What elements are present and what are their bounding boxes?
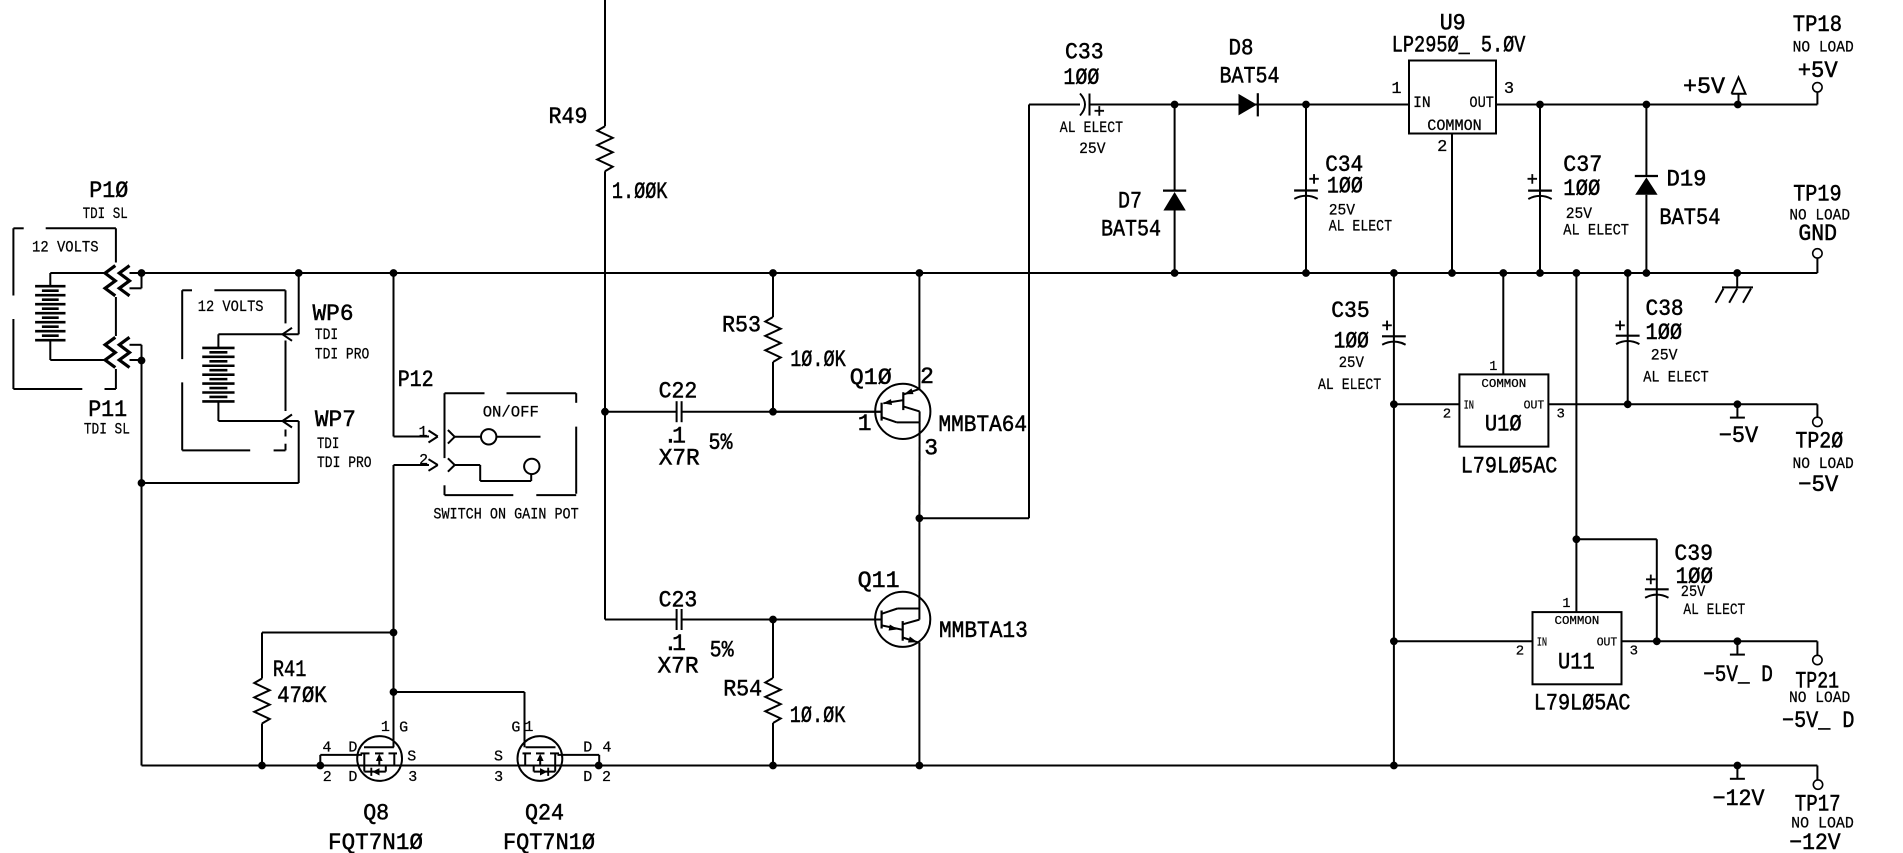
node C38 at GND bus <box>1624 270 1631 277</box>
svg-text:LP295Ø_ 5.ØV: LP295Ø_ 5.ØV <box>1392 33 1526 59</box>
node C38 at -5V row <box>1624 401 1631 408</box>
node P10 to GND bus <box>138 270 145 277</box>
node R54 at -12V rail <box>770 762 777 769</box>
svg-text:3: 3 <box>1630 644 1638 660</box>
capacitor C33 (polarized, horizontal) <box>1080 94 1090 116</box>
power tick -5V_D <box>1730 641 1745 654</box>
svg-text:1ØØ: 1ØØ <box>1327 174 1363 200</box>
svg-text:3: 3 <box>924 435 938 461</box>
svg-text:TDI: TDI <box>315 326 338 344</box>
node ground symbol at bus <box>1734 270 1741 277</box>
wire U11 COMMON column from GND bus <box>1575 273 1577 612</box>
connector P10/P11 body bracket <box>13 228 116 389</box>
svg-text:ON/OFF: ON/OFF <box>483 403 539 421</box>
svg-text:3: 3 <box>1504 80 1514 99</box>
node -5V tick at row <box>1734 401 1741 408</box>
switch contact 2 <box>448 458 540 481</box>
svg-text:R49: R49 <box>549 104 588 130</box>
svg-text:COMMON: COMMON <box>1555 615 1600 628</box>
wire +12V/C33 input net (top horizontal) <box>1029 104 1409 106</box>
svg-text:R53: R53 <box>722 313 761 339</box>
wire U11 OUT row (-5V_D net) <box>1622 641 1818 655</box>
svg-text:MMBTA13: MMBTA13 <box>939 618 1028 644</box>
power symbol +5V (triangle) <box>1732 77 1746 104</box>
node C34 at top wire <box>1303 101 1310 108</box>
pin WP6 arrow contact <box>283 273 299 341</box>
node WP6 to GND bus <box>295 270 302 277</box>
svg-text:−12V: −12V <box>1789 830 1840 853</box>
node Q8 drain stub at rail <box>317 762 324 769</box>
svg-text:2: 2 <box>920 364 934 390</box>
pin P12-2 arrow <box>429 459 438 471</box>
resistor R49 <box>597 0 612 620</box>
wire GND bus <box>142 258 1818 273</box>
capacitor C35 (polarized) <box>1382 336 1406 344</box>
svg-text:D: D <box>583 769 592 786</box>
battery 12 VOLTS (P10/P11) <box>35 273 105 360</box>
node P11 junction <box>138 357 145 364</box>
battery 12 VOLTS (WP6/WP7) <box>202 334 282 421</box>
svg-text:−5V: −5V <box>1719 423 1759 449</box>
wire P12 pin 2 net down to Q8/Q24 gates <box>394 465 430 747</box>
node C34 at GND bus <box>1303 270 1310 277</box>
svg-text:2: 2 <box>1516 644 1524 660</box>
svg-text:R41: R41 <box>273 657 307 683</box>
svg-text:COMMON: COMMON <box>1481 378 1526 391</box>
svg-text:OUT: OUT <box>1524 398 1545 412</box>
diode D19 BAT54 <box>1635 105 1658 274</box>
svg-text:AL ELECT: AL ELECT <box>1060 119 1123 137</box>
svg-text:47ØK: 47ØK <box>277 683 327 709</box>
svg-text:−5V_ D: −5V_ D <box>1782 708 1854 734</box>
svg-text:2: 2 <box>602 769 611 786</box>
svg-text:X7R: X7R <box>658 654 699 680</box>
svg-text:2: 2 <box>1443 407 1451 423</box>
wire C23 row <box>605 619 882 621</box>
node P12 pin1 at bus <box>390 270 397 277</box>
svg-text:G: G <box>511 720 520 737</box>
svg-text:Q11: Q11 <box>858 568 900 594</box>
svg-text:3: 3 <box>1556 407 1564 423</box>
node U10 pin1 at GND bus <box>1500 270 1507 277</box>
node C35 column at U11 IN row <box>1391 638 1398 645</box>
svg-text:IN: IN <box>1537 635 1547 649</box>
svg-text:TDI PRO: TDI PRO <box>317 454 372 472</box>
svg-text:25V: 25V <box>1079 140 1106 158</box>
switch P12 body (dashed box) <box>445 393 577 495</box>
diode D8 BAT54 <box>1239 93 1258 116</box>
svg-text:BAT54: BAT54 <box>1101 217 1161 243</box>
wire P12 pin 1 from GND bus <box>394 273 430 437</box>
node U9 pin2 at GND bus <box>1449 270 1456 277</box>
svg-text:AL ELECT: AL ELECT <box>1683 601 1745 619</box>
node +5V symbol at rail <box>1734 101 1741 108</box>
transistor Q24 (FQT7N10 MOSFET, mirrored) <box>518 736 600 781</box>
svg-text:TP18: TP18 <box>1793 12 1842 38</box>
svg-text:1ØØ: 1ØØ <box>1334 328 1369 354</box>
capacitor C39 (polarized) <box>1645 589 1669 597</box>
node C37 at +5V rail <box>1537 101 1544 108</box>
node collector junction Q10/Q11 <box>916 515 923 522</box>
svg-text:AL ELECT: AL ELECT <box>1329 217 1392 235</box>
svg-text:−5V: −5V <box>1798 472 1838 498</box>
svg-text:NO LOAD: NO LOAD <box>1793 455 1854 473</box>
testpoint TP18 terminal <box>1813 83 1822 92</box>
node D19 at +5V rail <box>1643 101 1650 108</box>
svg-text:1ØØ: 1ØØ <box>1063 65 1099 91</box>
value .1 (C22) <box>663 424 685 450</box>
testpoint TP17 terminal <box>1813 780 1822 789</box>
svg-text:4: 4 <box>602 740 611 757</box>
svg-text:1: 1 <box>1489 360 1497 375</box>
capacitor C38 (polarized) <box>1616 273 1640 404</box>
resistor R53 <box>765 273 780 412</box>
svg-text:+5V: +5V <box>1683 74 1725 100</box>
pin WP7 arrow contact <box>142 415 299 484</box>
svg-text:S: S <box>407 748 416 765</box>
svg-text:BAT54: BAT54 <box>1220 64 1280 90</box>
node C35 column at -12V rail <box>1391 762 1398 769</box>
svg-text:U11: U11 <box>1558 650 1595 676</box>
node gate net at R41 branch <box>390 629 397 636</box>
node WP7 wire to P11 vertical <box>138 480 145 487</box>
svg-text:12 VOLTS: 12 VOLTS <box>32 239 99 257</box>
svg-text:P12: P12 <box>398 367 434 393</box>
switch contact 1 (ON/OFF) <box>448 429 541 444</box>
testpoint TP20 terminal <box>1813 417 1822 426</box>
node C39 at U11 OUT row <box>1653 638 1660 645</box>
svg-text:R54: R54 <box>723 677 762 703</box>
regulator U11 L79L05AC box <box>1533 612 1622 684</box>
svg-text:25V: 25V <box>1681 583 1706 601</box>
svg-text:1: 1 <box>1391 80 1401 99</box>
capacitor C22 <box>677 401 682 422</box>
resistor R41 <box>254 633 269 766</box>
svg-text:GND: GND <box>1798 221 1837 247</box>
capacitor C37 (polarized) <box>1528 105 1552 274</box>
svg-text:C22: C22 <box>659 379 698 405</box>
svg-text:OUT: OUT <box>1469 94 1494 112</box>
svg-text:1: 1 <box>1562 597 1570 612</box>
svg-text:Q24: Q24 <box>525 801 564 827</box>
svg-text:25V: 25V <box>1339 354 1365 372</box>
svg-text:2: 2 <box>419 452 428 469</box>
node gate net at Q24 branch <box>390 689 397 696</box>
node U11 column at GND bus <box>1573 270 1580 277</box>
svg-text:OUT: OUT <box>1597 635 1618 649</box>
regulator U9 LP2950 box <box>1409 61 1496 134</box>
svg-text:D: D <box>348 769 357 786</box>
node Q10 collector at GND bus <box>916 270 923 277</box>
svg-text:−5V_ D: −5V_ D <box>1703 662 1773 688</box>
svg-text:1ØØ: 1ØØ <box>1646 320 1683 346</box>
wire Q24 gate branch <box>394 692 525 747</box>
svg-text:AL ELECT: AL ELECT <box>1318 376 1381 394</box>
node C35 at GND bus <box>1391 270 1398 277</box>
svg-text:1: 1 <box>858 411 872 437</box>
node D7 at top wire <box>1171 101 1178 108</box>
node C22 row at R53 <box>770 408 777 415</box>
svg-text:+5V: +5V <box>1798 58 1838 84</box>
node Q11 emitter at -12V rail <box>916 762 923 769</box>
node C23 row at R54 <box>770 616 777 623</box>
svg-text:C37: C37 <box>1563 152 1602 178</box>
value .1 (C23) <box>663 631 685 657</box>
svg-text:Q8: Q8 <box>363 801 389 827</box>
svg-text:BAT54: BAT54 <box>1659 205 1720 231</box>
svg-text:TP2Ø: TP2Ø <box>1795 429 1843 455</box>
ground symbol (hatched) <box>1716 273 1754 303</box>
svg-text:1Ø.ØK: 1Ø.ØK <box>790 703 846 729</box>
resistor R54 <box>765 620 780 766</box>
power tick -5V <box>1730 404 1745 417</box>
wire C22 row <box>605 411 882 413</box>
svg-text:+: + <box>1614 317 1625 338</box>
node Q24 drain stub at rail <box>595 762 602 769</box>
svg-text:TDI SL: TDI SL <box>84 420 130 438</box>
svg-text:12 VOLTS: 12 VOLTS <box>198 298 264 316</box>
svg-text:D19: D19 <box>1667 166 1707 192</box>
svg-text:2: 2 <box>323 769 332 786</box>
svg-text:1: 1 <box>381 719 390 736</box>
wire -12V bottom rail <box>142 361 1818 781</box>
svg-text:NO LOAD: NO LOAD <box>1793 38 1854 56</box>
svg-text:TDI: TDI <box>317 435 339 453</box>
svg-text:L79LØ5AC: L79LØ5AC <box>1461 453 1558 479</box>
wire U11 IN row <box>1394 640 1533 642</box>
node R41 at -12V rail <box>259 762 266 769</box>
power tick -12V <box>1730 766 1745 779</box>
svg-text:WP7: WP7 <box>315 407 356 433</box>
pin 1 wire U10 COMMON from GND bus <box>1502 273 1504 374</box>
svg-text:5%: 5% <box>710 638 734 664</box>
svg-text:NO LOAD: NO LOAD <box>1789 689 1850 707</box>
svg-text:−12V: −12V <box>1713 786 1765 812</box>
svg-text:COMMON: COMMON <box>1427 117 1482 135</box>
svg-text:FQT7N1Ø: FQT7N1Ø <box>503 830 595 853</box>
svg-text:+: + <box>1308 170 1319 191</box>
node D7 at GND bus <box>1171 270 1178 277</box>
svg-text:C35: C35 <box>1331 298 1370 324</box>
wire +5V rail from U9 OUT to TP18 <box>1496 92 1817 104</box>
svg-text:25V: 25V <box>1566 205 1593 223</box>
wire U10 OUT row (-5V net) <box>1548 404 1817 417</box>
svg-text:3: 3 <box>408 769 417 786</box>
svg-text:1ØØ: 1ØØ <box>1563 176 1600 202</box>
wire C39 branch <box>1576 539 1656 641</box>
svg-text:D: D <box>348 740 357 757</box>
svg-text:P11: P11 <box>88 397 127 423</box>
testpoint TP19 terminal <box>1813 249 1822 258</box>
transistor Q8 (FQT7N10 MOSFET) <box>320 736 402 781</box>
svg-text:1: 1 <box>418 424 427 441</box>
svg-text:D8: D8 <box>1229 35 1254 61</box>
connector P11 contacts (chevrons) <box>105 337 141 367</box>
svg-text:TP19: TP19 <box>1793 182 1841 208</box>
svg-text:+: + <box>1381 317 1392 338</box>
svg-text:MMBTA64: MMBTA64 <box>939 412 1028 438</box>
svg-text:1: 1 <box>524 719 533 736</box>
svg-text:D7: D7 <box>1118 188 1142 214</box>
testpoint TP21 terminal <box>1813 655 1822 664</box>
svg-text:IN: IN <box>1413 94 1431 112</box>
svg-text:1Ø.ØK: 1Ø.ØK <box>790 347 846 373</box>
svg-text:IN: IN <box>1464 398 1474 412</box>
pin 2 wire U9 COMMON to GND bus <box>1451 134 1453 274</box>
svg-text:1.ØØK: 1.ØØK <box>612 179 668 205</box>
svg-text:C38: C38 <box>1646 296 1684 322</box>
regulator U10 L79L05AC box <box>1459 374 1548 446</box>
svg-text:AL ELECT: AL ELECT <box>1643 368 1709 386</box>
svg-text:U1Ø: U1Ø <box>1485 412 1522 438</box>
node R53 at GND bus <box>770 270 777 277</box>
svg-text:P1Ø: P1Ø <box>89 178 128 204</box>
wire U10 IN row <box>1394 403 1460 405</box>
svg-text:C23: C23 <box>659 588 698 614</box>
svg-text:2: 2 <box>1437 138 1447 157</box>
svg-text:D: D <box>583 740 592 757</box>
connector WP6/WP7 body bracket <box>182 290 285 450</box>
node -5V_D tick at row <box>1734 638 1741 645</box>
capacitor C23 <box>677 609 682 630</box>
svg-text:FQT7N1Ø: FQT7N1Ø <box>328 830 423 853</box>
node D19 at GND bus <box>1643 270 1650 277</box>
svg-text:L79LØ5AC: L79LØ5AC <box>1534 690 1631 716</box>
node C35 column at U10 IN row <box>1391 401 1398 408</box>
node C39 branch <box>1573 536 1580 543</box>
pin P12-1 arrow <box>429 431 438 443</box>
svg-text:4: 4 <box>322 740 331 757</box>
diode D7 BAT54 <box>1163 105 1186 274</box>
wire gate net R41 to P12-2 vertical <box>262 632 394 634</box>
svg-text:C33: C33 <box>1065 40 1104 66</box>
svg-text:TDI PRO: TDI PRO <box>315 346 370 364</box>
svg-text:S: S <box>494 748 503 765</box>
node -12V tick at rail <box>1734 762 1741 769</box>
svg-text:X7R: X7R <box>659 445 700 471</box>
svg-text:SWITCH ON GAIN POT: SWITCH ON GAIN POT <box>433 505 578 523</box>
wire C35 column (GND bus to -12V rail) <box>1393 273 1395 766</box>
node C37 at GND bus <box>1537 270 1544 277</box>
svg-text:+: + <box>1527 170 1538 191</box>
capacitor C34 (polarized) <box>1294 105 1318 274</box>
svg-text:+: + <box>1645 571 1656 592</box>
svg-text:25V: 25V <box>1651 346 1678 364</box>
svg-text:WP6: WP6 <box>313 301 354 327</box>
transistor Q11 (NPN darlington) <box>875 518 930 765</box>
svg-text:TDI SL: TDI SL <box>83 205 128 223</box>
connector P10 contacts (chevrons) <box>105 266 141 296</box>
svg-text:Q1Ø: Q1Ø <box>850 365 892 391</box>
wire from Q10/Q11 collector node up to C33 <box>919 105 1029 519</box>
svg-text:G: G <box>399 720 408 737</box>
svg-text:5%: 5% <box>709 430 733 456</box>
svg-text:3: 3 <box>494 769 503 786</box>
transistor Q10 (PNP darlington) <box>773 273 930 518</box>
svg-text:AL ELECT: AL ELECT <box>1563 222 1629 240</box>
node R49 column at C22 row <box>602 408 609 415</box>
